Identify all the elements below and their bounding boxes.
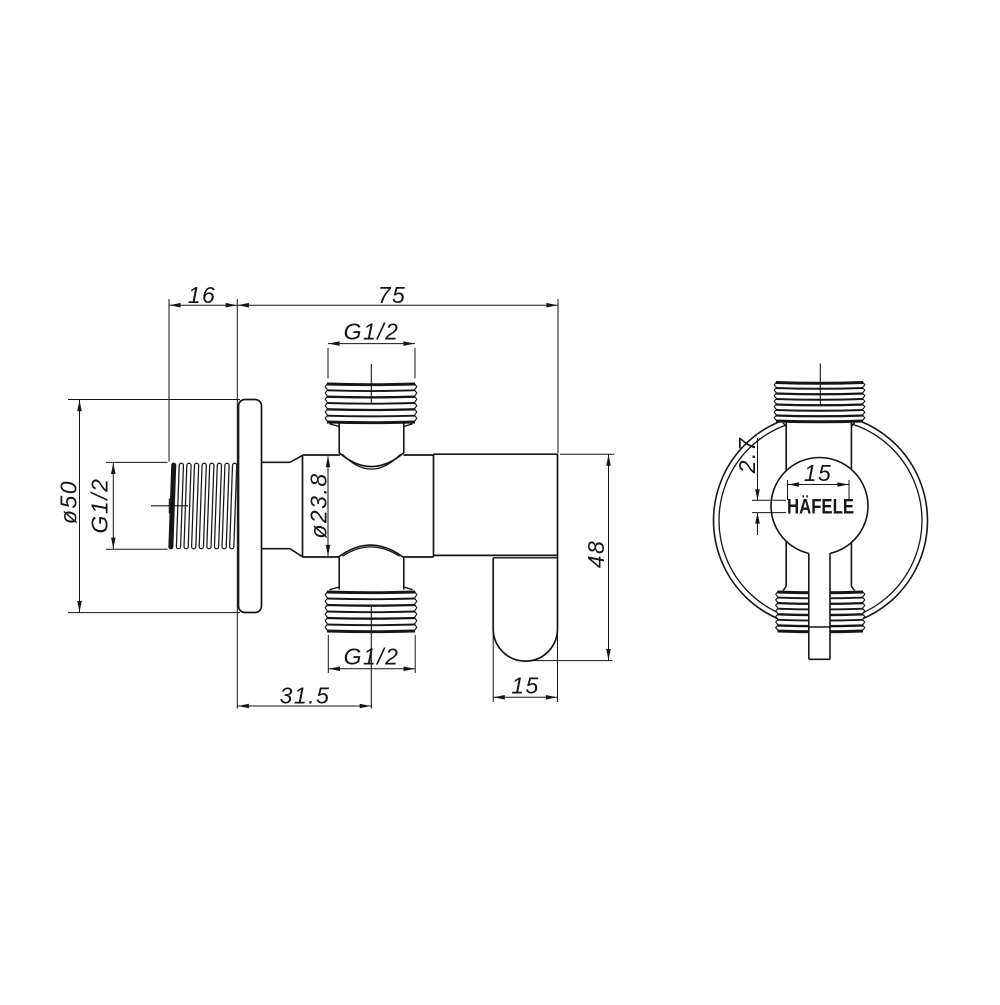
svg-text:HÄFELE: HÄFELE (787, 496, 854, 519)
dimension diameter 50 (56, 400, 241, 613)
svg-text:2.7: 2.7 (734, 437, 760, 474)
front view: outlet stem (in front of bottom thread) (809, 552, 830, 659)
front view: top G1/2 thread fitting (774, 381, 865, 423)
dimension G1/2 top (328, 319, 415, 379)
svg-text:ø50: ø50 (56, 480, 82, 524)
dimension 16 (169, 282, 237, 462)
front view: handle disc with logo (771, 458, 868, 555)
dimension G1/2 bottom (328, 635, 415, 673)
front view: vertical body tube (783, 423, 855, 591)
side view: upper fitting centerline (370, 364, 372, 404)
side view: outlet spout with round bottom (493, 555, 557, 661)
svg-text:G1/2: G1/2 (344, 319, 400, 345)
svg-text:ø23.8: ø23.8 (306, 472, 332, 538)
dimension 15 (side view outlet) (493, 629, 557, 702)
front view: HAFELE logo (787, 496, 854, 519)
front view: dimension 15 (788, 460, 850, 500)
side view: left G1/2 wall pipe thread (169, 462, 238, 550)
svg-text:15: 15 (511, 673, 540, 699)
dimension 75 (237, 282, 558, 709)
front view: wall plate inner circle (719, 419, 922, 622)
svg-text:75: 75 (378, 282, 407, 308)
front view: top centerline (819, 364, 821, 407)
side view: lower G1/2 thread fitting (325, 591, 417, 634)
side view: upper neck with arc transition (330, 423, 413, 469)
side view: pipe center mark (151, 499, 188, 514)
side view: right cylinder (valve head) (434, 454, 558, 555)
dimension G1/2 left (87, 462, 168, 549)
dimension diameter 23.8 (306, 456, 332, 557)
svg-text:15: 15 (804, 460, 833, 486)
side view: connector between plate and body (262, 455, 303, 556)
svg-text:31.5: 31.5 (280, 683, 331, 709)
svg-text:48: 48 (583, 540, 609, 569)
side view: main valve body (303, 454, 434, 557)
svg-text:G1/2: G1/2 (344, 644, 400, 670)
side view: lower neck with arc transition (330, 545, 413, 590)
side view: upper G1/2 thread fitting (325, 383, 417, 425)
dimension 48 (529, 454, 615, 660)
svg-text:16: 16 (188, 282, 217, 308)
side view: wall plate (flange) (239, 400, 262, 613)
front view: bottom G1/2 thread fitting (776, 591, 865, 634)
front view: dimension 2.7 (734, 437, 786, 535)
svg-text:G1/2: G1/2 (87, 478, 113, 534)
front view: wall plate outer circle (714, 414, 928, 628)
dimension 31.5 (237, 683, 371, 709)
side view: lower fitting centerline (370, 607, 372, 709)
